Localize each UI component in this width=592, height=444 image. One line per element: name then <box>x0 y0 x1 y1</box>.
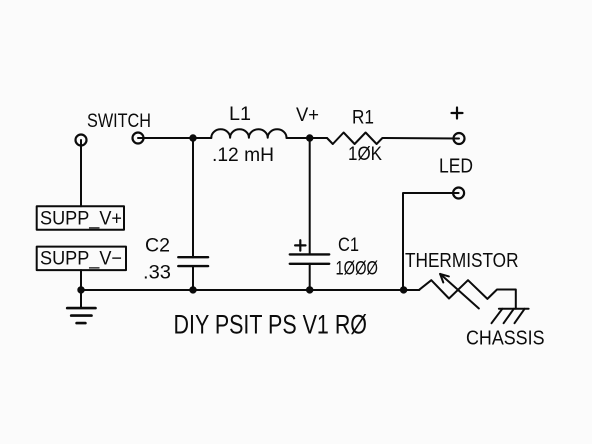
junction C2 bottom <box>189 286 196 293</box>
thermistor RT1 <box>419 280 516 309</box>
svg-text:V+: V+ <box>296 104 319 126</box>
thermistor arrow <box>440 274 479 309</box>
capacitor C2 <box>178 257 208 266</box>
wire node A to inductor <box>193 137 211 139</box>
svg-text:SWITCH: SWITCH <box>87 110 151 132</box>
wire C2 top stub <box>192 138 194 257</box>
svg-text:L1: L1 <box>229 103 251 125</box>
wire R1 to LED anode terminal <box>385 137 459 140</box>
junction C1 bottom <box>306 286 313 293</box>
svg-text:SUPP_V+: SUPP_V+ <box>40 208 122 230</box>
svg-text:C1: C1 <box>338 234 359 256</box>
net label box SUPP_V- <box>37 247 126 271</box>
wire switch right terminal to node A <box>138 137 193 139</box>
wire bottom rail to thermistor <box>404 289 420 291</box>
wire C2 bottom stub <box>192 266 194 290</box>
junction node A top <box>189 134 196 141</box>
wire inductor to node V+ <box>287 137 310 139</box>
resistor R1 <box>327 133 385 145</box>
switch terminal right <box>133 133 144 144</box>
svg-text:CHASSIS: CHASSIS <box>466 328 545 350</box>
inductor L1 <box>211 129 286 137</box>
svg-text:.33: .33 <box>143 262 171 284</box>
svg-text:SUPP_V−: SUPP_V− <box>40 248 122 270</box>
junction ground rail left <box>77 286 84 293</box>
polarity + of C1 <box>295 240 305 250</box>
ground <box>67 308 95 323</box>
svg-text:.12 mH: .12 mH <box>212 144 274 166</box>
capacitor C1 <box>290 254 329 263</box>
junction node V+ top <box>306 134 313 141</box>
wire C1 bottom stub <box>309 264 311 290</box>
wire bottom rail <box>81 289 404 291</box>
terminal LED cathode <box>453 188 464 199</box>
svg-text:THERMISTOR: THERMISTOR <box>405 249 519 272</box>
svg-text:LED: LED <box>439 156 473 178</box>
net label box SUPP_V+ <box>37 206 124 230</box>
label + for LED anode <box>452 108 463 119</box>
svg-text:DIY PSIT PS V1 RØ: DIY PSIT PS V1 RØ <box>174 309 368 339</box>
wire switch left terminal down to SUPP_V+ <box>80 140 82 206</box>
junction thermistor left <box>400 286 407 293</box>
svg-text:R1: R1 <box>352 107 374 129</box>
wire LED terminal to bottom rail <box>403 193 459 290</box>
svg-text:C2: C2 <box>145 235 170 257</box>
switch terminal left <box>76 135 87 146</box>
wire node V+ to resistor R1 <box>310 137 327 139</box>
terminal LED anode + <box>454 133 465 144</box>
svg-text:1ØØØ: 1ØØØ <box>336 258 379 280</box>
wire SUPP_V- down to ground junction <box>80 270 82 308</box>
chassis ground <box>492 309 529 323</box>
wire C1 top stub <box>309 138 311 254</box>
svg-text:1ØK: 1ØK <box>348 143 382 165</box>
